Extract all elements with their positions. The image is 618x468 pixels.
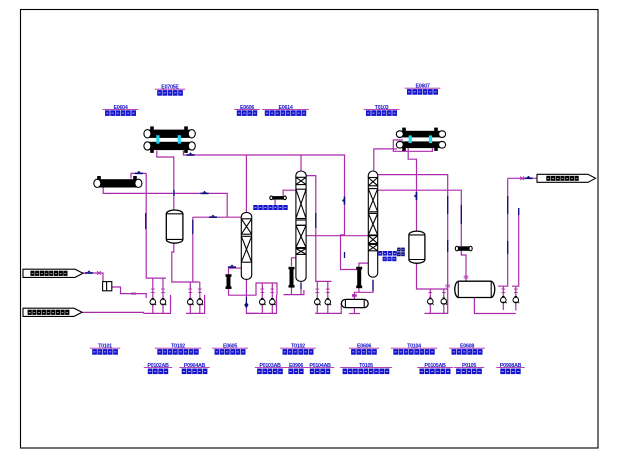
pump P0103B — [270, 298, 276, 305]
stream flag offspec feed inlet — [23, 308, 82, 316]
label T0105b — [340, 363, 392, 374]
wire condensate HX1 to drum V0601 — [157, 151, 174, 210]
wire T0102 reflux line x316 — [306, 176, 332, 282]
label T0103c — [364, 105, 400, 116]
svg-text:E0604: E0604 — [113, 105, 127, 111]
wire T0103 bottoms join — [359, 280, 373, 293]
wire reboiler E2 top line — [292, 258, 297, 266]
label P0103AB — [255, 363, 285, 374]
wire T0102 to T0103 feed y236 — [306, 235, 368, 237]
svg-text:P0904AB: P0904AB — [184, 363, 206, 369]
pump P0103A — [260, 298, 266, 305]
label E0605 — [212, 344, 248, 355]
wire reboiler E1 top line — [228, 268, 230, 274]
svg-text:P0102AB: P0102AB — [147, 363, 169, 369]
wire feed from flag1 to filter — [80, 273, 103, 282]
svg-text:E0605: E0605 — [223, 344, 237, 350]
label T0105 — [391, 344, 437, 355]
wire pot bottom drop — [353, 308, 355, 314]
wire E0604 top inlet header — [131, 173, 146, 178]
column T0103 — [368, 171, 377, 277]
svg-text:E0906: E0906 — [289, 363, 303, 369]
reboiler E0605r — [289, 267, 295, 288]
pump P0104B — [325, 298, 331, 305]
label E0705E — [155, 85, 185, 96]
svg-text:E0607: E0607 — [415, 84, 429, 90]
label E0603 — [234, 105, 259, 116]
wire reboiler E3 top line — [359, 263, 368, 267]
wire riser x146 down to G1 suction header — [146, 173, 166, 278]
label E0604 — [103, 105, 139, 116]
label P0105AB — [417, 363, 453, 374]
svg-text:P0103AB: P0103AB — [259, 363, 281, 369]
wire reboiler E1 bottom line — [229, 289, 247, 296]
stream flag refined product outlet — [537, 174, 596, 182]
pump P0106A — [501, 296, 507, 303]
wire T0102 overhead down-line x344 — [301, 155, 357, 270]
wire column T0101 bottoms — [245, 279, 247, 297]
svg-text:T0102: T0102 — [171, 344, 185, 350]
label E0606 — [349, 344, 379, 355]
note: vent to flare — [253, 205, 287, 210]
wire column T0101 bottoms to header — [246, 308, 258, 313]
wire G3 suction manifold — [246, 283, 277, 295]
label T0101 — [90, 344, 120, 355]
wire T0103 overhead to condenser E0607 — [374, 149, 397, 171]
heat exchanger pair E0607 (two stacked shells) — [396, 128, 445, 138]
wire cooler E0608 to product vessel — [461, 251, 466, 281]
label E0607 — [405, 84, 441, 95]
pump P0105A — [428, 298, 434, 305]
label P0102AB — [144, 363, 172, 374]
vent condenser E0614 (small shell) — [270, 196, 287, 200]
note: near drum V0602 — [397, 248, 405, 257]
svg-text:T0101: T0101 — [98, 344, 112, 350]
pump P0101A — [150, 298, 156, 305]
wire G6 discharges — [503, 303, 516, 311]
wire reboiler E1 return to column — [229, 267, 242, 269]
flow arrows and navy line accents — [85, 270, 93, 273]
svg-text:T0105: T0105 — [359, 363, 373, 369]
svg-text:E0705E: E0705E — [161, 85, 179, 91]
note: steam to T0103 — [378, 251, 397, 261]
svg-text:P0104AB: P0104AB — [309, 363, 331, 369]
label T0102 — [155, 344, 201, 355]
wire E0607 side loop — [393, 140, 432, 151]
label E0906 — [285, 363, 307, 374]
svg-text:E0606: E0606 — [357, 344, 371, 350]
wire vent condenser drain — [274, 199, 276, 205]
inline filter S0601 — [103, 282, 112, 291]
wire drum V0602 bottom to G5 suction — [417, 263, 448, 289]
wire E0607 outlet to drum V0602 — [408, 148, 416, 231]
wire drum bottom to G2 suction — [172, 243, 200, 282]
svg-text:E0608: E0608 — [460, 344, 474, 350]
svg-text:P0105AB: P0105AB — [424, 363, 446, 369]
wire reboiler E3 bottom to pot — [354, 288, 359, 299]
vessel reflux drum V0601 — [166, 210, 183, 243]
wire riser x519 — [512, 208, 519, 286]
pump P0102A — [188, 298, 194, 305]
wire G5 discharge header — [425, 289, 448, 313]
svg-text:P0908AB: P0908AB — [500, 363, 522, 369]
wire filter outlet to pump G1 suction — [112, 287, 146, 298]
wire G2 discharge header — [186, 295, 205, 313]
label P0104AB — [306, 363, 334, 374]
product cooler E0608 (small shell) — [455, 246, 472, 251]
vessel product drum V0604 — [455, 281, 495, 297]
wire T0103 side draw to cooler E0608 — [378, 190, 462, 246]
label P0908AB — [496, 363, 524, 374]
svg-text:T0103: T0103 — [375, 105, 389, 111]
svg-text:P0105: P0105 — [462, 363, 476, 369]
wire vent condenser E0614 to T0102 — [283, 190, 296, 196]
wire y175 header from T0103 to x448 riser — [378, 175, 448, 289]
wire riser to column T0102 top — [300, 155, 302, 171]
svg-text:E0606: E0606 — [240, 105, 254, 111]
pump P0101B — [160, 298, 166, 305]
column T0101 — [241, 212, 251, 279]
wire T0102 bottoms lower — [300, 289, 302, 295]
wire E0603 outlet to feed line — [103, 187, 227, 217]
column T0102 — [296, 171, 306, 281]
pump P0106B — [513, 296, 519, 303]
wire product vessel bottom header — [474, 298, 515, 314]
wire overhead vapour header y155 — [183, 151, 301, 155]
wire G3 discharge header — [246, 295, 276, 313]
wire G1 discharge header — [144, 295, 171, 313]
wire pot header stub — [349, 313, 360, 315]
label P0904AB — [179, 363, 210, 374]
pump P0104A — [315, 298, 321, 305]
reboiler E0606r — [356, 267, 362, 288]
wire vertical x193 — [192, 217, 194, 282]
label E0608 — [449, 344, 485, 355]
label E0614 — [262, 105, 308, 116]
reboiler E0602 — [226, 274, 232, 289]
stream flag crude feed inlet — [23, 269, 83, 277]
pump P0102B — [197, 298, 203, 305]
wire riser to column T0101 top — [245, 155, 247, 212]
svg-text:T0104: T0104 — [407, 344, 421, 350]
cyan tube links E0705E — [156, 135, 181, 143]
label P0106 — [454, 363, 484, 374]
wire product line to flag3 — [508, 177, 537, 179]
svg-text:E0614: E0614 — [278, 105, 292, 111]
wire reboiler E2 bottom line — [284, 287, 304, 294]
wire G4 discharge header — [315, 303, 341, 313]
wire T0102 bottoms upper — [300, 277, 302, 283]
svg-text:T0102: T0102 — [291, 344, 305, 350]
vessel bottoms pot V0603 — [341, 299, 368, 307]
pump P0105B — [441, 298, 447, 305]
heat exchanger E0604 (single shell) — [94, 176, 142, 188]
heat exchanger pair E0705E (two stacked shells) — [144, 126, 195, 138]
label T0104 — [280, 344, 316, 355]
wire product riser x508 — [498, 178, 508, 286]
vessel reflux drum V0602 — [409, 231, 425, 263]
wire feed header from flag2 — [82, 312, 144, 313]
wire column T0101 feed at y217 — [193, 216, 241, 218]
